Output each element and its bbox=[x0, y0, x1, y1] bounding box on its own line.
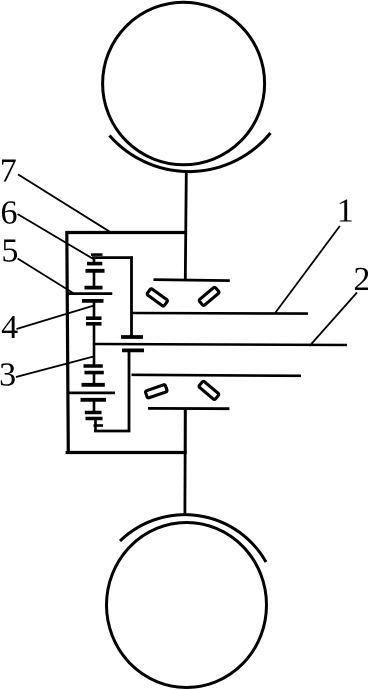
leader line 3 bbox=[16, 357, 94, 378]
gear bar T4a bbox=[86, 316, 102, 320]
gear bar B1a bbox=[84, 364, 103, 368]
gear bar B3 bbox=[81, 398, 107, 402]
gear bar T3 bbox=[82, 299, 104, 303]
leader line 5 bbox=[18, 259, 76, 295]
axle shaft upper (wheel to gearbox) bbox=[185, 172, 186, 280]
wheel top (tyre circle) bbox=[103, 2, 265, 165]
gear bar T1b bbox=[86, 269, 105, 273]
bevel gear lower-left bbox=[145, 384, 167, 398]
small bar above bracket bottom bbox=[94, 424, 104, 427]
gear shaft stem segment 3 bbox=[93, 301, 96, 318]
wheel bottom (tyre circle) bbox=[107, 523, 267, 688]
bevel gear upper-left bbox=[147, 288, 168, 306]
gear shaft stem segment 6 bbox=[93, 400, 96, 413]
gearbox housing left edge bbox=[67, 231, 69, 454]
bevel gear upper-right bbox=[199, 287, 220, 306]
gear shaft stem segment 4 (crosses centre line) bbox=[93, 324, 96, 366]
leader line 4 bbox=[17, 306, 95, 330]
svg-text:5: 5 bbox=[1, 233, 18, 270]
svg-text:4: 4 bbox=[1, 309, 18, 346]
svg-text:1: 1 bbox=[337, 192, 354, 229]
leader line 6 bbox=[18, 214, 96, 260]
small bar above bracket top bbox=[91, 253, 103, 256]
leader line 2 bbox=[310, 293, 358, 347]
gear shaft stem segment 7 bbox=[94, 419, 97, 432]
gear bar B4a bbox=[85, 411, 102, 415]
gearbox housing bottom edge bbox=[66, 451, 187, 454]
planet carrier bracket bottom line bbox=[94, 430, 130, 433]
gear bar B2 bbox=[82, 383, 105, 387]
gearbox housing right edge lower segment bbox=[184, 408, 187, 454]
differential housing lower-bottom line bbox=[148, 407, 229, 410]
clutch upper half bar bbox=[121, 335, 143, 339]
planet carrier bracket right edge upper bbox=[130, 256, 133, 337]
svg-text:7: 7 bbox=[0, 152, 17, 189]
gear bar B1b bbox=[85, 371, 104, 375]
gear bar T2 bbox=[85, 286, 103, 290]
wheel top cradle arc bbox=[110, 133, 271, 172]
planet carrier bracket top line bbox=[92, 256, 133, 259]
bevel gear lower-right bbox=[198, 381, 219, 400]
wheel bottom cradle arc bbox=[120, 515, 266, 562]
ring link bottom line bbox=[67, 391, 115, 394]
half-shaft 1 line bbox=[132, 312, 309, 315]
svg-text:6: 6 bbox=[1, 195, 18, 232]
gear bar T1a bbox=[87, 262, 102, 266]
gear shaft stem segment 5 bbox=[93, 373, 96, 385]
gear bar B4b bbox=[86, 417, 103, 421]
axle shaft lower (gearbox to wheel) bbox=[183, 408, 186, 515]
differential housing upper line bbox=[154, 280, 230, 281]
svg-text:2: 2 bbox=[353, 261, 368, 298]
svg-text:3: 3 bbox=[0, 357, 16, 394]
leader line 7 bbox=[18, 174, 112, 232]
ring link top line bbox=[67, 292, 112, 295]
half-shaft 2 centre line bbox=[95, 344, 348, 345]
gearbox housing top edge bbox=[66, 231, 186, 234]
leader line 1 bbox=[276, 226, 340, 313]
planet carrier bracket right edge lower bbox=[128, 350, 131, 431]
gear bar T4b bbox=[86, 322, 102, 326]
gear shaft stem segment 2 bbox=[93, 271, 96, 288]
clutch lower half bar bbox=[122, 348, 144, 352]
gear shaft stem segment 1 bbox=[93, 258, 96, 264]
differential housing lower-top line bbox=[132, 375, 302, 376]
